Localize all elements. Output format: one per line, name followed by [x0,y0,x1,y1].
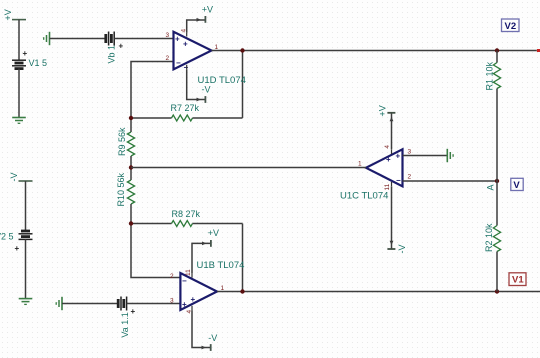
U1B pin number 4 [186,310,193,314]
svg-text:+: + [386,155,391,164]
+V label top-left [3,9,13,20]
U1C pin number 2 [408,174,412,181]
svg-text:R1 10k: R1 10k [485,61,495,90]
svg-text:V1 5: V1 5 [29,58,48,68]
U1B pin number 1 [221,285,225,292]
resistor R9 [127,118,134,168]
open end marker V2 net [537,49,540,52]
wire U1B output (V1 net) [217,291,540,293]
U1D pin number 2 [166,55,170,62]
svg-text:U1B TL074: U1B TL074 [197,260,245,271]
svg-text:A: A [486,184,496,190]
svg-text:V: V [513,180,520,191]
U1B -V label [208,333,217,343]
svg-text:2: 2 [408,174,412,181]
svg-text:-V: -V [208,333,217,343]
junction V1 net / R2 [495,289,499,293]
svg-text:+: + [183,40,188,49]
battery V1 plus sign [23,49,28,58]
U1B +V label [208,228,219,238]
label R10 56k [116,172,126,206]
label R8 27k [172,209,201,219]
battery V2 plus sign [15,244,20,253]
label Va 1.1 [120,312,130,337]
U1C +V label [378,105,388,116]
battery Va plus sign [131,307,136,316]
junction U1B output / R8 [240,289,244,293]
wire Va left [62,303,118,305]
svg-text:11: 11 [384,183,391,190]
svg-text:+V: +V [378,105,388,116]
junction V net [495,179,499,183]
svg-text:3: 3 [170,298,174,305]
svg-text:-V: -V [202,85,211,95]
label R1 10k [485,61,495,90]
battery Vb plus sign [119,42,124,51]
U1D +V supply wire [187,16,206,32]
junction V2 net / R1 [495,48,499,52]
U1C pin number 1 [358,161,362,168]
svg-text:1: 1 [358,161,362,168]
svg-text:U1C TL074: U1C TL074 [340,191,388,202]
svg-text:−: − [182,277,187,286]
svg-text:+V: +V [208,228,219,238]
power rail -V symbol left [19,180,33,182]
svg-text:2: 2 [170,273,174,280]
U1D pin number 4 [180,29,187,33]
ground below V1 [12,118,26,124]
U1B pin number 3 [170,298,174,305]
U1D +V label [202,4,213,14]
svg-text:+: + [15,244,20,253]
op-amp U1C (mirrored) [366,149,403,186]
label V2 5 [0,232,14,242]
wire V2 bottom [25,239,27,298]
label V1 5 [29,58,48,68]
svg-text:+V: +V [3,9,13,20]
label V2 box [502,19,520,32]
wire node to U1B pin2 [131,224,180,278]
ground below V2 [19,299,33,305]
label U1D TL074 [198,75,246,86]
resistor R10 [127,168,134,224]
svg-text:−: − [396,176,401,185]
U1C -V supply wire [387,186,395,249]
U1D pin number 3 [166,32,170,39]
wire U1D output (V2 net) [212,50,537,52]
svg-text:+: + [182,300,187,309]
svg-text:11: 11 [185,269,192,276]
svg-text:R9 56k: R9 56k [117,127,127,156]
wire U1C output to rail [131,167,366,169]
svg-text:-V: -V [9,173,19,182]
U1D -V label [202,85,211,95]
label V1 box [509,273,526,286]
U1B pin number 11 [185,269,192,276]
op-amp U1B [180,273,217,310]
resistor R8 [131,221,243,227]
resistor R2 [493,181,500,292]
ground left of Vb (rotated) [44,32,50,45]
power rail +V symbol top-left [12,19,26,21]
wire R8 right to U1B output node [242,224,244,292]
resistor R1 [493,51,500,182]
junction U1D output / R7 [240,48,244,52]
U1B +V supply wire [192,240,211,273]
battery V2 [19,231,33,239]
battery V1 [12,60,26,68]
label R9 56k [117,127,127,156]
U1C pin number 3 [408,149,412,156]
svg-text:R10 56k: R10 56k [116,172,126,206]
junction R10/R8 node [129,221,133,225]
svg-text:+: + [191,295,196,304]
label U1C TL074 [340,191,388,202]
node label A [486,184,496,190]
ground right of U1C (rotated) [447,149,453,162]
svg-text:V1: V1 [512,275,524,286]
junction U1C out / rail [129,165,133,169]
wire Vb left [50,38,106,40]
svg-text:R7 27k: R7 27k [171,103,200,113]
wire V1 top [18,20,20,61]
resistor R7 [131,115,243,121]
wire V2 top [25,181,27,231]
U1C -V label [397,245,407,254]
label V box [511,178,523,191]
wire U1D pin2 to node [131,62,173,119]
wire Vb right to U1D pin3 [114,38,173,40]
svg-text:Va 1.1: Va 1.1 [120,312,130,337]
svg-text:2: 2 [166,55,170,62]
svg-text:3: 3 [166,32,170,39]
label Vb 1 [107,45,117,64]
svg-text:−: − [176,59,181,68]
op-amp U1D [174,32,212,72]
U1C +V supply wire [387,113,395,150]
svg-text:+: + [396,152,401,161]
wire R7 right to output node [242,51,244,119]
svg-text:+: + [175,35,180,44]
svg-text:+V: +V [202,4,213,14]
U1C pin number 4 [384,145,391,149]
label R7 27k [171,103,200,113]
label U1B TL074 [197,260,245,271]
-V label left [9,173,19,182]
U1D pin number 1 [215,44,219,51]
U1D -V supply wire [187,69,206,103]
battery Vb [106,32,114,46]
ground left of Va (rotated) [56,297,62,310]
wire U1C pin2 to V node [403,180,498,182]
svg-text:Vb 1: Vb 1 [107,45,117,64]
svg-text:+: + [119,42,124,51]
svg-text:V2 5: V2 5 [0,232,14,242]
wire U1C pin3 to ground [403,155,448,157]
wire Va right to U1B pin3 [127,303,181,305]
U1B -V supply wire [192,310,211,351]
svg-text:-V: -V [397,245,407,254]
svg-text:4: 4 [384,145,391,149]
battery Va [118,297,126,311]
svg-text:R2 10k: R2 10k [484,223,494,252]
svg-text:+: + [131,307,136,316]
U1C pin number 11 [384,183,391,190]
svg-text:R8 27k: R8 27k [172,209,201,219]
label R2 10k [484,223,494,252]
junction R7/R9 node [129,116,133,120]
svg-text:3: 3 [408,149,412,156]
svg-text:+: + [23,49,28,58]
U1B pin number 2 [170,273,174,280]
svg-text:V2: V2 [505,21,517,32]
wire V1 bottom [18,69,20,118]
